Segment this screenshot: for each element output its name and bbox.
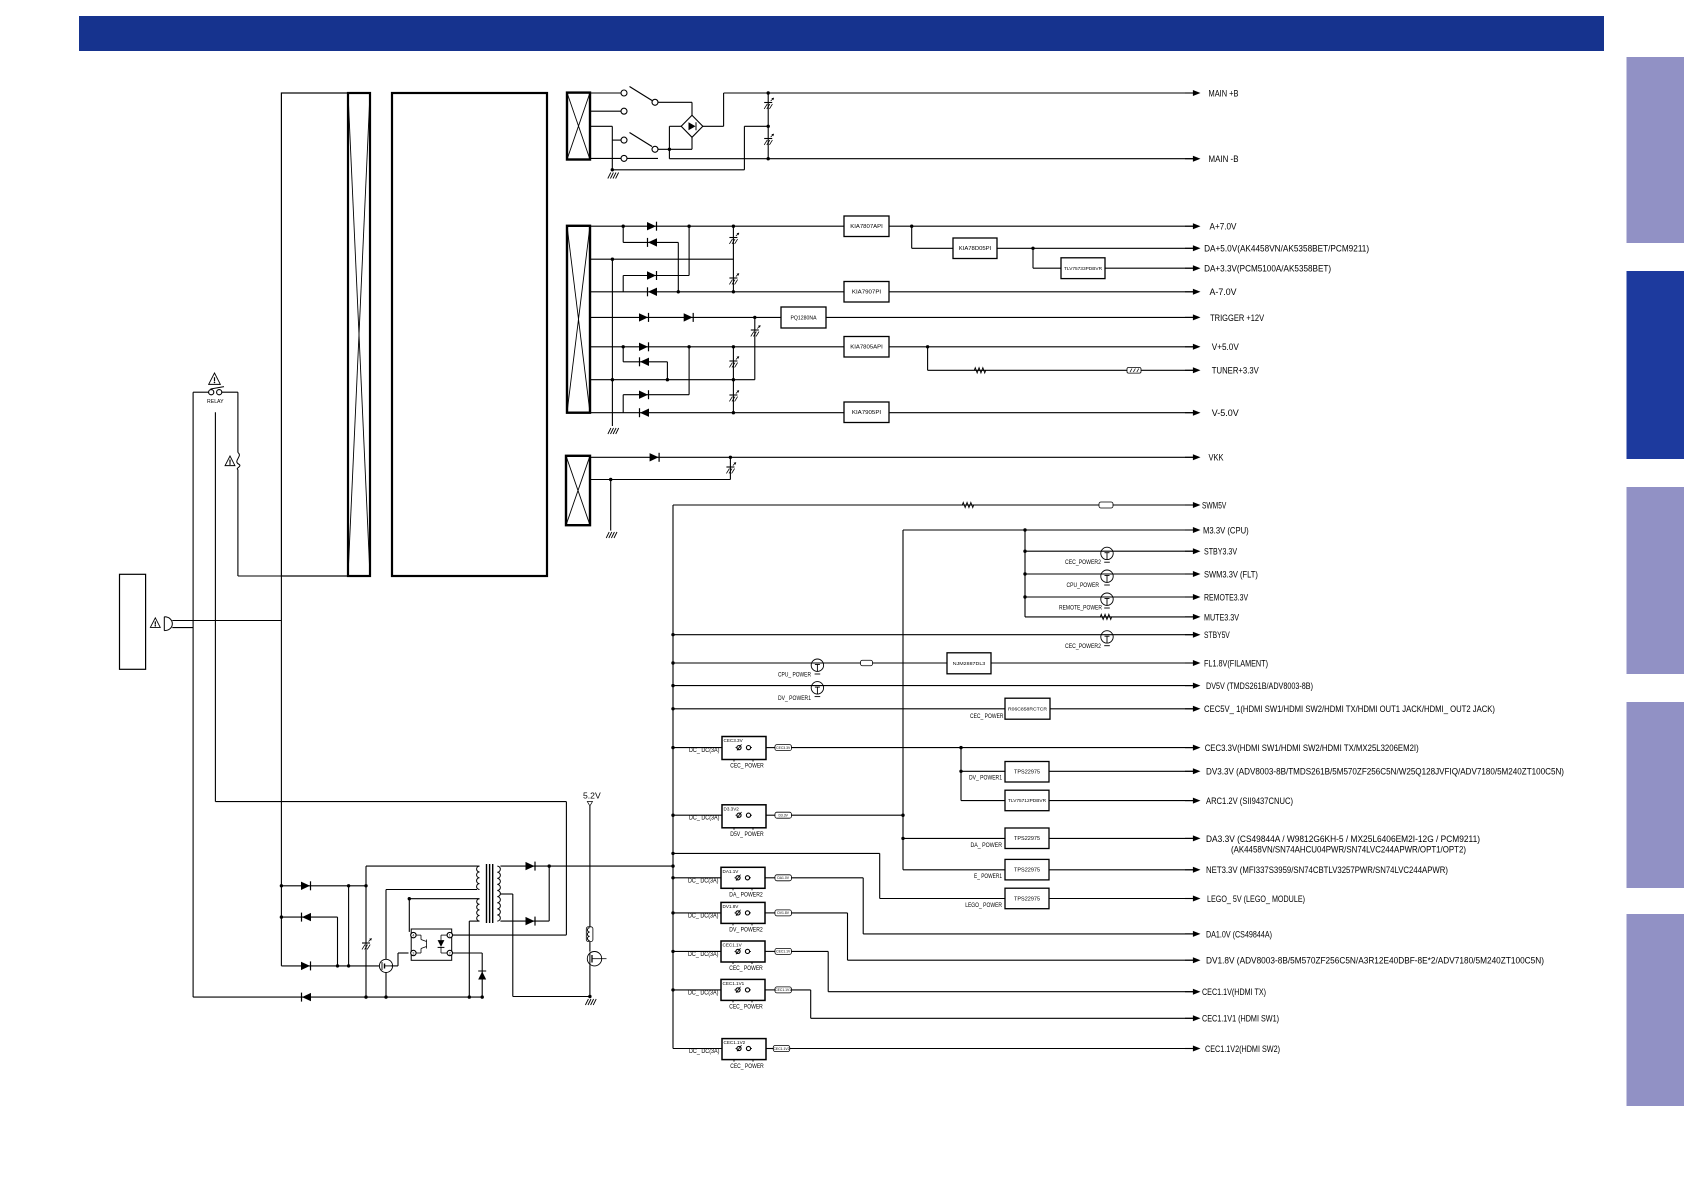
svg-text:TLV75733PDBVR: TLV75733PDBVR — [1064, 266, 1102, 271]
svg-text:CEC_ POWER: CEC_ POWER — [730, 763, 764, 770]
svg-text:E_ POWER1: E_ POWER1 — [974, 873, 1002, 880]
svg-text:FL1.8V(FILAMENT): FL1.8V(FILAMENT) — [1204, 658, 1268, 669]
svg-text:5.2V: 5.2V — [583, 791, 601, 801]
svg-text:R06C858RCTCR: R06C858RCTCR — [1008, 706, 1047, 711]
svg-text:M3.3V (CPU): M3.3V (CPU) — [1203, 525, 1249, 536]
svg-text:DA1.0V (CS49844A): DA1.0V (CS49844A) — [1206, 929, 1272, 940]
svg-text:DC_ DC(3A): DC_ DC(3A) — [689, 747, 720, 754]
svg-text:CEC3.3V: CEC3.3V — [724, 738, 744, 743]
svg-text:DA3.3V (CS49844A / W9812G6KH-5: DA3.3V (CS49844A / W9812G6KH-5 / MX25L64… — [1206, 834, 1480, 845]
svg-text:DA+3.3V(PCM5100A/AK5358BET): DA+3.3V(PCM5100A/AK5358BET) — [1204, 264, 1331, 275]
svg-text:PQ1280NA: PQ1280NA — [791, 315, 818, 321]
svg-text:MAIN +B: MAIN +B — [1209, 88, 1239, 99]
svg-text:KIA7805API: KIA7805API — [850, 345, 883, 351]
svg-text:RELAY: RELAY — [207, 399, 224, 405]
svg-text:CEC1.1V2: CEC1.1V2 — [724, 1040, 746, 1045]
svg-text:(AK4458VN/SN74AHCU04PWR/SN74LV: (AK4458VN/SN74AHCU04PWR/SN74LVC244APWR/O… — [1231, 845, 1466, 856]
svg-text:CEC1.1V1: CEC1.1V1 — [775, 988, 791, 992]
svg-text:DC_ DC(3A): DC_ DC(3A) — [688, 912, 719, 919]
svg-text:LEGO_ POWER: LEGO_ POWER — [965, 902, 1002, 909]
svg-text:CEC3.3V(HDMI SW1/HDMI SW2/HDMI: CEC3.3V(HDMI SW1/HDMI SW2/HDMI TX/MX25L3… — [1205, 743, 1419, 754]
svg-text:NJM2887DL3: NJM2887DL3 — [953, 661, 986, 667]
svg-text:CEC1.1V: CEC1.1V — [776, 950, 791, 954]
svg-text:TPS22975: TPS22975 — [1014, 836, 1040, 842]
svg-text:TUNER+3.3V: TUNER+3.3V — [1212, 366, 1260, 377]
svg-text:CEC_ POWER: CEC_ POWER — [730, 1063, 764, 1070]
svg-text:CEC1.1V1 (HDMI SW1): CEC1.1V1 (HDMI SW1) — [1202, 1014, 1279, 1025]
svg-text:REMOTE_POWER: REMOTE_POWER — [1059, 605, 1102, 612]
svg-text:KIA7807API: KIA7807API — [850, 224, 883, 230]
svg-text:TPS22975: TPS22975 — [1014, 868, 1040, 874]
svg-text:DC_ DC(3A): DC_ DC(3A) — [688, 989, 719, 996]
svg-text:D3.3V2: D3.3V2 — [724, 806, 740, 811]
svg-text:CEC_POWER2: CEC_POWER2 — [1065, 643, 1101, 650]
svg-text:CEC1.1V2(HDMI SW2): CEC1.1V2(HDMI SW2) — [1205, 1044, 1280, 1055]
svg-text:CEC1.1V: CEC1.1V — [723, 943, 743, 948]
svg-text:STBY5V: STBY5V — [1204, 630, 1230, 641]
svg-text:DA1.1V: DA1.1V — [723, 869, 740, 874]
svg-text:MUTE3.3V: MUTE3.3V — [1204, 612, 1239, 623]
svg-text:DV_ POWER1: DV_ POWER1 — [969, 775, 1002, 782]
svg-text:CEC1.1V1: CEC1.1V1 — [723, 981, 745, 986]
svg-text:ARC1.2V (SII9437CNUC): ARC1.2V (SII9437CNUC) — [1206, 796, 1293, 807]
svg-text:REMOTE3.3V: REMOTE3.3V — [1204, 592, 1249, 603]
svg-text:DV1.8V (ADV8003-8B/5M570ZF256C: DV1.8V (ADV8003-8B/5M570ZF256C5N/A3R12E4… — [1206, 956, 1544, 967]
svg-text:A+7.0V: A+7.0V — [1210, 222, 1238, 233]
svg-text:DV5V (TMDS261B/ADV8003-8B): DV5V (TMDS261B/ADV8003-8B) — [1206, 681, 1313, 692]
svg-text:SWM3.3V (FLT): SWM3.3V (FLT) — [1204, 569, 1258, 580]
svg-text:DA1.0V: DA1.0V — [777, 876, 789, 880]
svg-text:A-7.0V: A-7.0V — [1210, 287, 1238, 298]
svg-text:CEC_ POWER: CEC_ POWER — [970, 713, 1004, 720]
svg-text:VKK: VKK — [1209, 453, 1225, 464]
svg-text:KIA7905PI: KIA7905PI — [852, 410, 881, 416]
svg-text:DC_ DC(3A): DC_ DC(3A) — [689, 1048, 720, 1055]
svg-text:V+5.0V: V+5.0V — [1212, 342, 1240, 353]
svg-text:TLV75712PDBVR: TLV75712PDBVR — [1008, 798, 1046, 803]
svg-text:SWM5V: SWM5V — [1202, 500, 1227, 511]
svg-text:DV3.3V (ADV8003-8B/TMDS261B/5M: DV3.3V (ADV8003-8B/TMDS261B/5M570ZF256C5… — [1206, 767, 1564, 778]
svg-text:1: 1 — [449, 934, 451, 938]
svg-text:DC_ DC(3A): DC_ DC(3A) — [688, 877, 719, 884]
svg-text:CEC1.1V2: CEC1.1V2 — [773, 1047, 789, 1051]
svg-text:DA+5.0V(AK4458VN/AK5358BET/PCM: DA+5.0V(AK4458VN/AK5358BET/PCM9211) — [1204, 244, 1369, 255]
svg-text:KIA7907PI: KIA7907PI — [852, 290, 881, 296]
svg-text:DV_ POWER2: DV_ POWER2 — [729, 927, 763, 934]
svg-text:NET3.3V (MFI337S3959/SN74CBTLV: NET3.3V (MFI337S3959/SN74CBTLV3257PWR/SN… — [1206, 865, 1448, 876]
svg-text:V-5.0V: V-5.0V — [1212, 408, 1240, 419]
svg-text:3: 3 — [412, 952, 414, 956]
svg-text:4: 4 — [412, 934, 414, 938]
svg-text:DC_ DC(3A): DC_ DC(3A) — [688, 951, 719, 958]
svg-text:CEC3.3V: CEC3.3V — [776, 746, 791, 750]
svg-text:TPS22975: TPS22975 — [1014, 896, 1040, 902]
svg-text:DV1.8V: DV1.8V — [723, 904, 740, 909]
svg-text:LEGO_ 5V (LEGO_ MODULE): LEGO_ 5V (LEGO_ MODULE) — [1207, 894, 1305, 905]
svg-text:CEC_POWER2: CEC_POWER2 — [1065, 559, 1101, 566]
svg-text:CEC_ POWER: CEC_ POWER — [729, 965, 763, 972]
svg-text:TRIGGER +12V: TRIGGER +12V — [1210, 313, 1265, 324]
svg-text:CPU_ POWER: CPU_ POWER — [778, 671, 811, 678]
svg-text:DC_ DC(3A): DC_ DC(3A) — [689, 815, 720, 822]
svg-text:STBY3.3V: STBY3.3V — [1204, 547, 1238, 558]
svg-text:CEC5V_ 1(HDMI SW1/HDMI SW2/HDM: CEC5V_ 1(HDMI SW1/HDMI SW2/HDMI TX/HDMI … — [1204, 704, 1495, 715]
svg-text:DV1.8V: DV1.8V — [777, 911, 789, 915]
svg-text:CEC_ POWER: CEC_ POWER — [729, 1004, 763, 1011]
svg-text:DA_ POWER: DA_ POWER — [971, 842, 1003, 849]
svg-text:D5V_ POWER: D5V_ POWER — [730, 831, 764, 838]
svg-text:TPS22975: TPS22975 — [1014, 770, 1040, 776]
svg-text:D3.3V: D3.3V — [778, 814, 788, 818]
svg-text:CEC1.1V(HDMI TX): CEC1.1V(HDMI TX) — [1202, 987, 1266, 998]
svg-text:CPU_POWER: CPU_POWER — [1067, 582, 1100, 589]
svg-text:2: 2 — [449, 952, 451, 956]
svg-text:DA_ POWER2: DA_ POWER2 — [729, 892, 763, 899]
svg-text:KIA78D05PI: KIA78D05PI — [959, 246, 992, 252]
svg-text:MAIN -B: MAIN -B — [1209, 154, 1239, 165]
svg-text:DV_ POWER1: DV_ POWER1 — [778, 695, 811, 702]
